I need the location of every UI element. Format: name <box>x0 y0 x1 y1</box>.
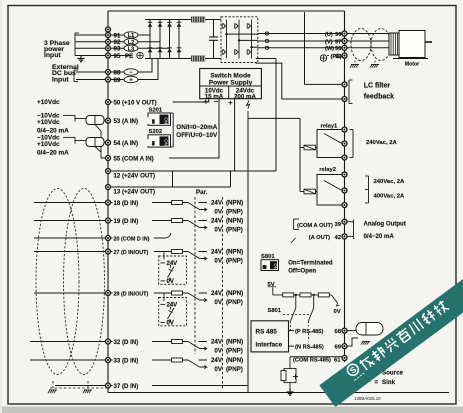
svg-text:(PNP): (PNP) <box>226 258 243 265</box>
svg-text:(NPN): (NPN) <box>226 249 243 256</box>
svg-text:24V: 24V <box>167 261 178 267</box>
svg-text:88: 88 <box>114 69 121 76</box>
svg-text:S202: S202 <box>149 129 163 135</box>
svg-text:(PNP): (PNP) <box>226 209 243 216</box>
svg-text:0V: 0V <box>214 227 222 234</box>
svg-text:50 (+10 V OUT): 50 (+10 V OUT) <box>114 99 157 106</box>
svg-text:(NPN): (NPN) <box>226 290 243 297</box>
svg-text:Switch Mode: Switch Mode <box>210 72 251 79</box>
svg-text:(V): (V) <box>325 39 333 45</box>
svg-text:Source: Source <box>382 369 404 376</box>
svg-text:+: + <box>228 98 233 107</box>
svg-text:89: 89 <box>114 77 121 84</box>
svg-text:55 (COM A IN): 55 (COM A IN) <box>114 155 154 162</box>
svg-text:54 (A IN): 54 (A IN) <box>114 140 139 147</box>
svg-text:On=Terminated: On=Terminated <box>288 259 333 266</box>
svg-text:+10Vdc: +10Vdc <box>37 141 60 148</box>
svg-text:Input: Input <box>44 52 61 59</box>
svg-text:24V: 24V <box>211 339 223 346</box>
svg-text:24V: 24V <box>211 200 223 207</box>
svg-text:53 (A IN): 53 (A IN) <box>114 118 139 125</box>
svg-text:(COM RS-485): (COM RS-485) <box>293 358 331 364</box>
svg-text:37 (D IN): 37 (D IN) <box>114 383 139 390</box>
svg-text:240Vac, 2A: 240Vac, 2A <box>366 140 398 146</box>
svg-text:0V: 0V <box>334 309 341 315</box>
svg-text:S801: S801 <box>261 254 275 260</box>
svg-text:S801: S801 <box>267 308 281 314</box>
svg-text:Analog Output: Analog Output <box>364 221 406 228</box>
svg-text:interface: interface <box>256 342 283 349</box>
svg-text:ON: ON <box>273 263 278 269</box>
svg-text:0V: 0V <box>214 209 222 216</box>
svg-text:relay1: relay1 <box>321 124 339 130</box>
svg-text:L3: L3 <box>128 46 135 52</box>
svg-text:0V: 0V <box>214 348 222 355</box>
svg-text:18 (D IN): 18 (D IN) <box>114 200 139 207</box>
svg-text:130BA025.10: 130BA025.10 <box>354 396 381 401</box>
svg-text:(U): (U) <box>325 32 333 38</box>
svg-text:68: 68 <box>334 329 341 335</box>
svg-text:20 (COM D IN): 20 (COM D IN) <box>114 236 150 242</box>
svg-text:200 mA: 200 mA <box>234 93 257 100</box>
svg-text:42: 42 <box>334 235 341 241</box>
svg-text:(NPN): (NPN) <box>226 200 243 207</box>
svg-text:96: 96 <box>335 32 342 38</box>
svg-text:(NPN): (NPN) <box>226 218 243 225</box>
svg-text:(A OUT): (A OUT) <box>309 235 330 241</box>
svg-text:0V: 0V <box>167 321 174 327</box>
svg-text:PE: PE <box>125 53 133 60</box>
svg-text:39: 39 <box>334 222 341 228</box>
svg-text:Input: Input <box>52 76 69 83</box>
svg-text:Sink: Sink <box>382 379 396 386</box>
svg-text:69: 69 <box>334 344 341 350</box>
svg-text:240Vac, 2A: 240Vac, 2A <box>374 179 406 185</box>
svg-text:24V: 24V <box>211 357 223 364</box>
svg-text:Off=Open: Off=Open <box>288 268 316 275</box>
svg-text:(N RS-485): (N RS-485) <box>295 344 324 350</box>
svg-text:ON: ON <box>163 117 168 124</box>
svg-text:0V: 0V <box>167 279 174 285</box>
svg-text:0V: 0V <box>214 258 222 265</box>
svg-text:(W): (W) <box>325 46 334 52</box>
svg-text:0/4−20 mA: 0/4−20 mA <box>37 128 69 135</box>
svg-text:400Vac, 2A: 400Vac, 2A <box>374 194 406 200</box>
svg-text:0V: 0V <box>214 299 222 306</box>
svg-text:33 (D IN): 33 (D IN) <box>114 357 139 364</box>
svg-text:0/4−20 mA: 0/4−20 mA <box>364 233 395 240</box>
svg-text:13 (+24V OUT): 13 (+24V OUT) <box>114 188 156 195</box>
svg-text:24V: 24V <box>167 303 178 309</box>
svg-text:27 (D IN/OUT): 27 (D IN/OUT) <box>114 250 149 256</box>
svg-text:95: 95 <box>114 53 121 60</box>
svg-text:93: 93 <box>114 46 121 53</box>
svg-text:Par.: Par. <box>196 189 208 196</box>
svg-text:0/4−20 mA: 0/4−20 mA <box>37 149 69 156</box>
svg-text:29 (D IN/OUT): 29 (D IN/OUT) <box>114 291 149 297</box>
svg-text:relay2: relay2 <box>319 167 336 173</box>
svg-text:(COM A OUT): (COM A OUT) <box>297 223 333 229</box>
svg-text:(P RS-485): (P RS-485) <box>295 329 323 335</box>
svg-text:61: 61 <box>334 358 341 364</box>
svg-text:32 (D IN): 32 (D IN) <box>114 339 139 346</box>
svg-text:=: = <box>375 379 379 386</box>
svg-text:99: 99 <box>335 54 342 60</box>
svg-text:0V: 0V <box>214 366 222 373</box>
svg-text:LC filter: LC filter <box>364 82 391 89</box>
svg-text:Power Supply: Power Supply <box>209 79 253 86</box>
svg-text:24V: 24V <box>211 249 223 256</box>
svg-text:ON: ON <box>163 139 168 146</box>
svg-text:(PNP): (PNP) <box>226 299 243 306</box>
svg-text:(NPN): (NPN) <box>226 357 243 364</box>
svg-text:Motor: Motor <box>405 62 419 68</box>
svg-text:24V: 24V <box>211 290 223 297</box>
svg-text:98: 98 <box>335 46 342 52</box>
svg-text:−: − <box>214 97 219 106</box>
svg-text:OFF/U=0−10V: OFF/U=0−10V <box>176 132 218 139</box>
svg-text:(PNP): (PNP) <box>226 366 243 373</box>
svg-text:(PNP): (PNP) <box>226 348 243 355</box>
svg-text:(NPN): (NPN) <box>226 339 243 346</box>
svg-text:feedback: feedback <box>364 94 394 101</box>
svg-text:97: 97 <box>335 39 341 45</box>
svg-text:+10Vdc: +10Vdc <box>37 119 60 126</box>
svg-text:24V: 24V <box>211 218 223 225</box>
svg-text:12 (+24V OUT): 12 (+24V OUT) <box>114 172 156 179</box>
svg-text:S201: S201 <box>149 107 163 113</box>
svg-text:19 (D IN): 19 (D IN) <box>114 218 139 225</box>
svg-text:ON/I=0−20mA: ON/I=0−20mA <box>176 124 217 131</box>
svg-text:(PNP): (PNP) <box>226 227 243 234</box>
svg-text:RS 485: RS 485 <box>256 329 278 336</box>
svg-text:+10Vdc: +10Vdc <box>37 99 60 106</box>
